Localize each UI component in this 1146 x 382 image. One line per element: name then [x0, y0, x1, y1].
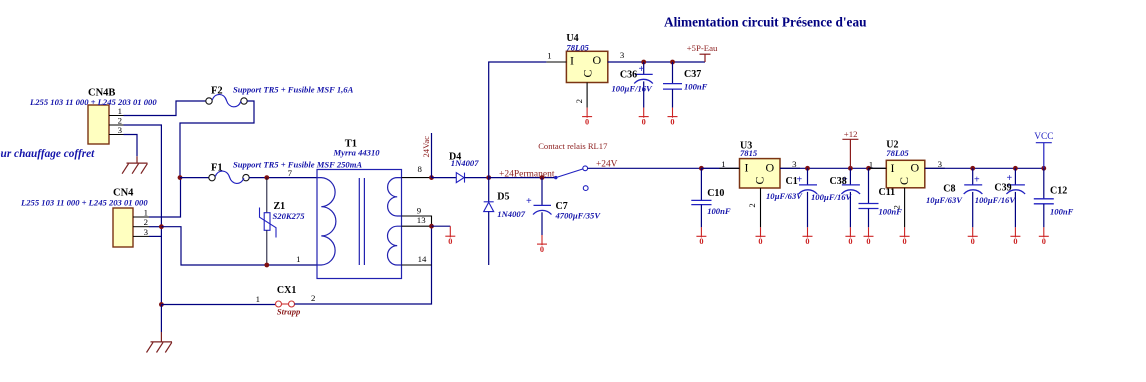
svg-text:D5: D5 [497, 192, 509, 203]
svg-text:Z1: Z1 [274, 201, 286, 212]
wire junction to earth [160, 305, 162, 333]
wire U3 output rail [780, 167, 886, 169]
connector CN4B [29, 88, 157, 145]
T1 core [358, 178, 360, 265]
junction A live node [178, 175, 183, 180]
wire CX1 to 0V vertical [295, 226, 432, 304]
svg-text:0: 0 [699, 237, 703, 246]
svg-text:1: 1 [296, 254, 300, 264]
power port 0 below C37 [668, 108, 678, 127]
svg-text:0: 0 [1042, 237, 1046, 246]
svg-text:0: 0 [866, 237, 870, 246]
svg-text:C: C [753, 176, 767, 184]
svg-text:I: I [570, 53, 574, 67]
fuse F2 [206, 85, 354, 107]
svg-text:100nF: 100nF [1050, 206, 1074, 216]
svg-text:9: 9 [417, 205, 422, 215]
svg-text:78L05: 78L05 [886, 148, 909, 158]
svg-text:0: 0 [805, 237, 809, 246]
svg-text:CX1: CX1 [277, 285, 296, 296]
svg-text:F2: F2 [211, 86, 223, 97]
pin 14 of T1 [402, 254, 432, 265]
regulator U4 78L05 [566, 33, 607, 83]
svg-text:1: 1 [118, 106, 122, 116]
svg-text:I: I [891, 161, 895, 175]
pin 2 of CN4B [109, 116, 124, 126]
junction C1 [805, 166, 810, 171]
wire CN4B pin2 down neutral [124, 125, 162, 305]
pin 1 of U4 [546, 61, 566, 63]
junction Z1 bottom [264, 263, 269, 268]
power port 0 below U3 [756, 227, 766, 246]
power port 0 at pin13 [432, 226, 456, 246]
pin 9 of T1 [402, 205, 432, 226]
junction neutral-earth node [159, 302, 164, 307]
svg-text:0: 0 [758, 237, 762, 246]
svg-text:2: 2 [747, 203, 757, 207]
svg-text:24Vac: 24Vac [421, 136, 431, 158]
svg-text:O: O [766, 160, 775, 174]
svg-text:C37: C37 [684, 69, 701, 80]
svg-text:78L05: 78L05 [566, 43, 589, 53]
pin 3 of CN4B [109, 125, 124, 135]
power port +12 [842, 129, 858, 168]
junction C12 VCC [1041, 166, 1046, 171]
power port 0 below C36 [639, 108, 649, 127]
svg-text:C36: C36 [620, 70, 637, 81]
wire CN4 pin2 to neutral vertical [149, 226, 161, 228]
svg-text:0: 0 [971, 237, 975, 246]
fuse F1 [209, 159, 363, 183]
junction pin13 0V node [429, 224, 434, 229]
svg-text:C11: C11 [879, 187, 896, 198]
svg-text:3: 3 [118, 125, 123, 135]
svg-text:1: 1 [721, 159, 725, 169]
wire junction up to U4 input [489, 62, 547, 178]
junction Z1 top [264, 175, 269, 180]
SECTION-RIGHT [691, 129, 1073, 246]
pin 13 of T1 [402, 215, 432, 226]
svg-text:C38: C38 [830, 176, 847, 187]
svg-text:1: 1 [547, 51, 551, 61]
pin 2 of CN4 [133, 217, 149, 227]
wire neutral to transformer pin1 [161, 227, 317, 265]
junction CN4 pin2 neutral [159, 224, 164, 229]
net label 24Vac stub [421, 133, 432, 178]
pin 3 of U3 [780, 167, 800, 169]
strap CX1 [276, 285, 302, 317]
svg-text:10µF/63V: 10µF/63V [766, 191, 803, 201]
svg-text:C8: C8 [943, 183, 955, 194]
junction C36 [641, 60, 646, 65]
wire D4 to +24Permanent junction [465, 177, 489, 179]
power port 0 below C12 [1039, 227, 1049, 246]
power port 0 below U4 [582, 108, 592, 127]
capacitor C11 [859, 168, 903, 227]
svg-text:7815: 7815 [740, 148, 758, 158]
regulator U2 78L05 [886, 140, 925, 188]
svg-text:Contact relais RL17: Contact relais RL17 [538, 141, 608, 151]
capacitor C39 electrolytic [975, 168, 1025, 227]
pin 3 of U2 [925, 167, 945, 169]
pin 1 of U3 [720, 167, 740, 169]
switch contact RL17 [538, 141, 608, 191]
capacitor C7 electrolytic [526, 178, 601, 235]
wire F2 to junction A [180, 101, 254, 178]
SECTION-MIDDLE [432, 62, 720, 265]
svg-text:3: 3 [938, 159, 943, 169]
T1 secondary winding top [388, 178, 402, 216]
wire U2 output rail [925, 167, 1044, 169]
svg-text:2: 2 [118, 116, 122, 126]
diode D4 [456, 173, 464, 183]
pin 3 of U4 [608, 61, 628, 63]
junction C11 [866, 166, 871, 171]
wire CN4 pin3 to neutral vertical [149, 235, 161, 237]
svg-text:Strapp: Strapp [277, 307, 301, 317]
svg-text:13: 13 [417, 215, 426, 225]
svg-text:Support TR5 + Fusible MSF 250m: Support TR5 + Fusible MSF 250mA [233, 159, 362, 169]
svg-text:100nF: 100nF [707, 206, 731, 216]
svg-text:+: + [526, 196, 532, 207]
power port 0 below C1 [803, 227, 813, 246]
svg-text:S20K275: S20K275 [273, 211, 306, 221]
power port 0 below C38 [845, 227, 855, 246]
capacitor C12 [1034, 168, 1074, 227]
svg-text:C: C [897, 177, 911, 185]
junction C38 +12 [848, 166, 853, 171]
svg-text:10µF/63V: 10µF/63V [926, 195, 963, 205]
svg-text:1N4007: 1N4007 [497, 209, 525, 219]
junction C10 [699, 166, 704, 171]
svg-text:100µF/16V: 100µF/16V [811, 192, 853, 202]
svg-text:C10: C10 [707, 188, 724, 199]
pin 2 of U3 [747, 188, 761, 227]
junction C39 [1013, 166, 1018, 171]
svg-text:O: O [593, 53, 602, 67]
svg-text:3: 3 [792, 159, 797, 169]
wire F1 to transformer pin7 [249, 177, 317, 179]
pin 1 of CN4 [133, 208, 149, 218]
power port VCC [1034, 132, 1053, 168]
junction +24Permanent node [486, 175, 491, 180]
power port 0 below C39 [1010, 227, 1020, 246]
wire +24V rail to C10 [588, 167, 720, 169]
pin 2 of U2 [892, 188, 905, 228]
svg-text:0: 0 [848, 237, 852, 246]
wire U4 output rail [608, 61, 705, 63]
svg-text:+5P-Eau: +5P-Eau [687, 43, 718, 53]
wire junction A to F1 [180, 177, 209, 179]
earth ground at CN4 bottom [147, 332, 173, 353]
svg-text:+: + [974, 175, 980, 186]
svg-text:Myrra 44310: Myrra 44310 [333, 147, 381, 157]
svg-text:C12: C12 [1050, 185, 1067, 196]
svg-text:0: 0 [1013, 237, 1017, 246]
junction C7 [540, 175, 545, 180]
svg-text:3: 3 [144, 227, 149, 237]
power port +5P-Eau [687, 43, 718, 62]
svg-text:C: C [581, 69, 595, 77]
svg-text:Alimentation circuit Présence: Alimentation circuit Présence d'eau [664, 15, 867, 30]
svg-text:VCC: VCC [1034, 132, 1053, 142]
wire CN4B pin1 to F2 [124, 101, 206, 116]
svg-text:C1: C1 [786, 176, 798, 187]
svg-text:100µF/16V: 100µF/16V [612, 84, 654, 94]
pin 1 of U2 [869, 167, 887, 169]
svg-text:O: O [911, 161, 920, 175]
regulator U3 7815 [740, 140, 781, 188]
wire C10 to U3 [701, 167, 739, 169]
svg-text:0: 0 [448, 237, 452, 246]
svg-text:I: I [745, 161, 749, 175]
svg-text:0: 0 [642, 117, 646, 126]
junction C37 [670, 60, 675, 65]
svg-text:F1: F1 [211, 163, 223, 174]
svg-text:100nF: 100nF [684, 82, 708, 92]
svg-text:2: 2 [311, 293, 315, 303]
svg-text:7: 7 [288, 168, 293, 178]
svg-text:Pour chauffage coffret: Pour chauffage coffret [0, 148, 95, 160]
svg-text:+12: +12 [844, 129, 858, 139]
T1 secondary winding bottom [388, 226, 402, 265]
svg-text:0: 0 [585, 117, 589, 126]
svg-text:C39: C39 [994, 183, 1011, 194]
varistor Z1 [260, 178, 306, 265]
svg-text:+: + [639, 64, 645, 75]
svg-text:L255 103 11 000 + L245 203 01: L255 103 11 000 + L245 203 01 000 [20, 197, 148, 207]
pin 2 of U4 [574, 83, 587, 108]
SECTION-U4 [546, 15, 867, 127]
power port 0 below C8 [968, 227, 978, 246]
svg-text:14: 14 [418, 254, 427, 264]
earth ground at CN4B [122, 156, 147, 173]
power port 0 below C7 [537, 235, 547, 254]
svg-text:3: 3 [620, 50, 625, 60]
svg-text:100µF/16V: 100µF/16V [975, 195, 1017, 205]
svg-text:L255 103 11 000 + L245 203 01: L255 103 11 000 + L245 203 01 000 [29, 97, 157, 107]
capacitor C1 electrolytic [766, 168, 817, 227]
capacitor C36 electrolytic [612, 62, 654, 108]
svg-text:0: 0 [903, 237, 907, 246]
SECTION-LEFT [0, 85, 432, 353]
capacitor C10 [691, 168, 731, 227]
capacitor C38 electrolytic [811, 168, 860, 227]
svg-text:1: 1 [144, 208, 148, 218]
wire junction to CX1 [161, 304, 275, 306]
connector CN4 [20, 188, 148, 248]
junction C8 [970, 166, 975, 171]
power port 0 below C10 [696, 227, 706, 246]
pin 1 of CN4B [109, 106, 124, 116]
svg-text:1: 1 [869, 160, 873, 170]
junction pin8 [429, 175, 434, 180]
svg-text:1: 1 [256, 294, 260, 304]
capacitor C8 electrolytic [926, 168, 982, 227]
capacitor C37 [663, 62, 708, 108]
wire to C7 and switch [489, 177, 556, 179]
wire CN4 pin1 up to junction A [149, 178, 181, 217]
wire pin8 junction to D4 [432, 177, 457, 179]
svg-text:2: 2 [892, 205, 902, 209]
pin 3 of CN4 [133, 227, 149, 237]
svg-text:4700µF/35V: 4700µF/35V [555, 211, 602, 221]
power port 0 below U2 [900, 227, 910, 246]
power port 0 below C11 [864, 227, 874, 246]
svg-text:2: 2 [574, 99, 584, 103]
svg-text:8: 8 [418, 164, 423, 174]
svg-text:Support TR5 + Fusible MSF 1,6A: Support TR5 + Fusible MSF 1,6A [233, 85, 354, 95]
wire CN4B pin3 to earth [124, 135, 138, 157]
diode D5 [484, 178, 526, 265]
SECTION-TRANSFORMER [288, 133, 456, 279]
svg-text:0: 0 [540, 245, 544, 254]
svg-text:2: 2 [144, 217, 148, 227]
svg-text:1N4007: 1N4007 [451, 158, 479, 168]
pin 8 of T1 [402, 164, 432, 178]
svg-text:0: 0 [670, 117, 674, 126]
transformer T1 [317, 170, 402, 279]
T1 primary winding [317, 178, 336, 265]
